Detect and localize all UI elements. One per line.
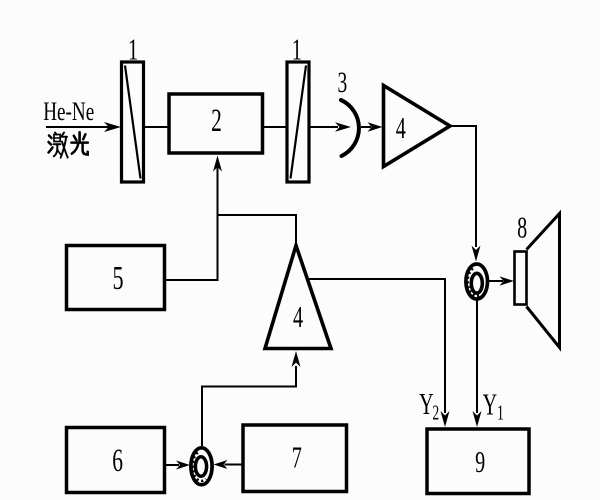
- label 9: [475, 445, 485, 479]
- svg-text:4: 4: [293, 300, 303, 334]
- wire box6 to detector B arrow: [166, 461, 190, 470]
- label 7: [292, 440, 302, 474]
- label 6: [112, 443, 123, 480]
- svg-text:Y: Y: [483, 387, 498, 421]
- detector B (lower photocell): [191, 448, 212, 485]
- wire box2 to polarizer 1 (right): [263, 126, 288, 128]
- label 3: [338, 66, 348, 99]
- box 9 (oscilloscope): [427, 429, 529, 494]
- label 2: [211, 103, 222, 140]
- node 激光 label (hand-drawn glyphs): [49, 133, 68, 158]
- wire detector A down to box 9 (Y1): [473, 301, 482, 428]
- label 4 (middle amplifier): [293, 300, 303, 334]
- wire detector to speaker arrow: [489, 276, 515, 285]
- node He-Ne laser input label: [43, 97, 94, 126]
- label 4 (upper amplifier): [396, 111, 406, 145]
- speaker 8: [515, 214, 560, 348]
- label Y2: [419, 387, 439, 424]
- label 8: [517, 210, 527, 244]
- svg-text:8: 8: [517, 210, 527, 244]
- lens 3 (curved mirror arc): [341, 100, 359, 156]
- box 2 (modulator): [169, 94, 263, 153]
- polarizer 1 (left): [122, 62, 144, 182]
- svg-text:1: 1: [497, 401, 504, 425]
- svg-text:Y: Y: [419, 387, 434, 421]
- detector A (upper photocell): [466, 264, 488, 299]
- svg-text:3: 3: [338, 66, 348, 99]
- box 7: [243, 425, 347, 492]
- svg-text:7: 7: [292, 440, 302, 474]
- wire box7 to detector B arrow (pointing left): [214, 460, 242, 469]
- amplifier 4 (upper, pointing right): [384, 86, 451, 167]
- wire amplifier4 output to detector: [450, 126, 481, 262]
- polarizer 1 (right): [287, 62, 309, 182]
- svg-text:1: 1: [128, 32, 138, 66]
- wire amplifier 4b to box 9 (Y2): [308, 279, 450, 427]
- amplifier 4 (middle, pointing up): [265, 246, 331, 349]
- svg-text:6: 6: [112, 443, 123, 480]
- label 5: [112, 259, 123, 297]
- label 1 (left polarizer): [128, 32, 138, 66]
- wire polarizer to lens arrow: [310, 122, 352, 131]
- svg-text:1: 1: [292, 32, 302, 66]
- svg-text:He-Ne: He-Ne: [43, 97, 94, 126]
- wire box5 to box2 (up arrow): [166, 156, 222, 281]
- box 6: [67, 428, 165, 493]
- svg-text:2: 2: [211, 103, 222, 140]
- wire detector B up into amplifier 4b (arrow): [202, 351, 301, 446]
- box 5 (oscillator): [67, 246, 165, 310]
- svg-text:2: 2: [432, 401, 439, 425]
- svg-text:9: 9: [475, 445, 485, 479]
- wire branch to amplifier 4b apex: [218, 215, 297, 244]
- wire polarizer1 to box2: [144, 126, 168, 128]
- label Y1: [483, 387, 504, 424]
- svg-text:4: 4: [396, 111, 406, 145]
- label 1 (right polarizer): [292, 32, 302, 66]
- wire laser input arrow: [46, 122, 121, 132]
- svg-text:5: 5: [112, 259, 123, 297]
- wire lens to amplifier arrow: [361, 122, 383, 131]
